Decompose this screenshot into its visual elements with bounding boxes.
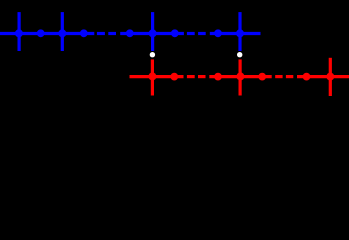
wire: blue dashed segment 1a <box>97 32 105 35</box>
node: red site 1 (cross) <box>148 72 156 80</box>
wire: blue chain horizontal segment 2 <box>120 32 184 35</box>
node: blue site 2 <box>37 29 45 37</box>
wire: blue chain horizontal segment 1 <box>0 32 94 35</box>
node: red site 4 <box>214 73 222 81</box>
node: white link dot right <box>237 52 242 57</box>
node: red site 5 (cross) <box>236 72 244 80</box>
wire: blue dashed segment 2a <box>187 32 195 35</box>
wire: blue dashed segment 2b <box>198 32 206 35</box>
node: blue site 10 <box>214 29 222 37</box>
wire: red vertical arm at red site 5 <box>239 59 242 95</box>
wire: blue vertical arm at site 11 <box>238 12 241 51</box>
wire: blue vertical arm at site 1 <box>18 12 21 51</box>
node: blue site 8 <box>171 29 179 37</box>
node: red site 9 (cross) <box>326 73 334 81</box>
node: blue site 6 <box>126 29 134 37</box>
node: red site 2 <box>170 73 178 81</box>
node: blue site 7 (cross) <box>149 29 157 37</box>
node: blue site 3 (cross) <box>58 29 66 37</box>
wire: red vertical arm at red site 9 <box>329 58 332 96</box>
node: blue site 4 <box>80 29 88 37</box>
wire: blue dashed segment 1b <box>108 32 116 35</box>
wire: red dashed segment 1b <box>198 75 206 78</box>
wire: blue vertical arm at site 3 <box>61 12 64 51</box>
node: white link dot left <box>150 52 155 57</box>
wire: red dashed segment 2a <box>275 75 282 78</box>
wire: red dashed segment 1a <box>187 75 195 78</box>
node: blue site 1 (cross) <box>15 29 23 37</box>
wire: red chain horizontal segment 2 <box>209 75 271 78</box>
wire: blue chain horizontal segment 3 <box>210 32 261 35</box>
wire: blue vertical arm at site 7 <box>151 12 154 51</box>
node: red site 6 <box>258 73 266 81</box>
wire: red chain horizontal segment 1 <box>130 75 184 78</box>
node: blue site 11 (cross) <box>236 29 244 37</box>
wire: red vertical arm at red site 1 <box>151 59 154 95</box>
wire: red chain horizontal segment 3 <box>297 75 349 78</box>
node: red site 8 <box>303 73 311 81</box>
wire: red dashed segment 2b <box>286 75 293 78</box>
